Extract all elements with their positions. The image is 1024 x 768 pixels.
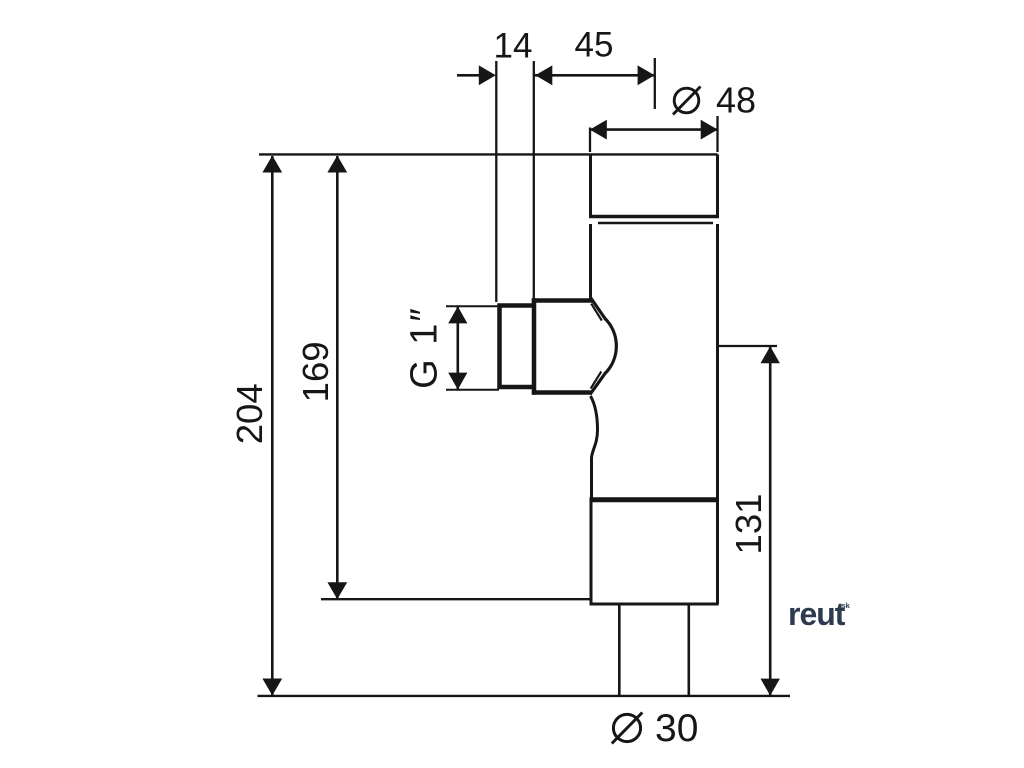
wire 14 left extension	[495, 61, 497, 302]
socket hub left edge	[532, 298, 537, 394]
wire 169 dimension line	[336, 156, 339, 599]
svg-text:169: 169	[295, 341, 336, 402]
arrowhead 14 leader right	[479, 65, 496, 85]
wire 131 top extension	[718, 345, 777, 347]
arrowhead diameter48 left	[590, 120, 607, 140]
wire top extension line / cap top edge	[259, 153, 718, 155]
dome outline	[590, 298, 616, 395]
svg-text:204: 204	[229, 383, 270, 444]
svg-text:reut: reut	[788, 596, 846, 632]
wire G1 top extension	[446, 305, 499, 307]
svg-text:45: 45	[575, 26, 614, 65]
svg-text:G 1″: G 1″	[404, 306, 446, 389]
wire 14 right extension	[533, 61, 535, 299]
arrowhead G1 top	[448, 306, 467, 323]
arrowhead 204 top	[262, 156, 282, 173]
arrowhead 131 bottom	[761, 679, 780, 696]
arrowhead 131 top	[761, 346, 780, 363]
wire diameter48 right extension	[716, 116, 718, 152]
arrowhead 45 right	[638, 65, 655, 85]
socket hub top edge	[532, 298, 592, 303]
wire bottom baseline	[258, 695, 791, 697]
divider thick line	[590, 497, 719, 502]
wire diameter48 dimension line	[590, 128, 718, 131]
diameter symbol for 48	[674, 88, 699, 113]
socket hub bottom edge	[532, 390, 592, 395]
pipe right edge	[687, 606, 690, 696]
wire 14 leader line	[457, 74, 481, 77]
valve cap bottom edge	[589, 215, 719, 218]
wire 204 dimension line	[271, 156, 274, 695]
wire 169 bottom extension	[321, 598, 590, 600]
pipe left edge	[618, 606, 621, 696]
wire diameter48 left extension	[589, 128, 591, 153]
dome inner top line	[591, 304, 602, 321]
lower body left edge	[590, 502, 593, 604]
svg-text:131: 131	[728, 494, 769, 555]
arrowhead diameter48 right	[701, 120, 718, 140]
wire axis tick	[654, 58, 656, 109]
arrowhead 169 bottom	[327, 582, 347, 599]
diameter symbol for 30	[613, 714, 640, 741]
arrowhead 45 left	[535, 65, 552, 85]
valve cap right edge	[716, 154, 719, 217]
arrowhead 169 top	[327, 156, 347, 173]
wire 131 dimension line	[769, 347, 772, 695]
valve body left edge upper	[589, 224, 592, 299]
body S-curve below dome	[591, 396, 598, 498]
wire G1 bottom extension	[446, 389, 499, 391]
lower body bottom edge	[590, 603, 719, 606]
socket flange rect	[500, 306, 535, 388]
arrowhead G1 bottom	[448, 373, 467, 390]
valve body right edge	[716, 224, 719, 604]
svg-text:14: 14	[494, 27, 533, 66]
svg-text:48: 48	[716, 80, 756, 121]
valve band line	[598, 222, 713, 225]
dome inner bottom line	[591, 371, 602, 388]
valve cap left edge	[589, 154, 592, 217]
svg-text:sk: sk	[842, 601, 851, 610]
watermark reut logo	[788, 596, 851, 632]
wire 45 dimension line	[535, 74, 654, 77]
svg-text:30: 30	[655, 707, 698, 750]
arrowhead 204 bottom	[262, 679, 282, 696]
wire G1 dimension line	[456, 307, 459, 389]
